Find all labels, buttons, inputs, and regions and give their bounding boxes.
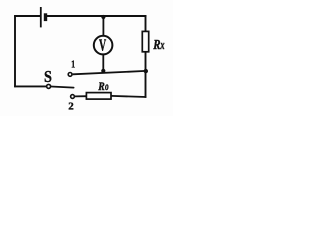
wire: left vertical: [14, 15, 16, 87]
svg-text:1: 1: [71, 60, 75, 71]
battery B short plate: [44, 13, 47, 21]
terminal 2: [71, 95, 75, 99]
svg-text:2: 2: [68, 101, 74, 113]
resistor R0 body: [86, 93, 111, 100]
wire: right vertical top corner to Rx: [145, 15, 147, 32]
switch S blade: [51, 87, 74, 88]
voltmeter top stem: [102, 16, 104, 36]
svg-text:x: x: [160, 39, 166, 52]
svg-text:R: R: [152, 37, 160, 53]
switch S pivot: [47, 84, 51, 88]
wire: switch feed: [14, 85, 46, 87]
wire: terminal 2 stub to R0: [75, 95, 88, 97]
wire: top from left corner to battery: [14, 15, 40, 17]
resistor Rx body: [142, 31, 148, 51]
node: junction dot right mid: [144, 69, 148, 73]
svg-text:S: S: [44, 68, 52, 86]
wire: right vertical Rx to bottom corner: [145, 52, 147, 98]
voltmeter bottom stem: [102, 55, 104, 72]
node: junction dot below voltmeter: [101, 69, 105, 73]
terminal 1: [68, 73, 72, 77]
voltmeter U1 circle: [94, 36, 113, 55]
wire: mid horizontal from terminal 1 to right vertical: [73, 71, 147, 74]
svg-text:V: V: [99, 36, 106, 54]
node: junction dot top: [101, 15, 105, 19]
battery B long plate: [40, 7, 42, 27]
svg-text:R: R: [97, 81, 104, 94]
svg-text:o: o: [105, 81, 109, 94]
wire: top from battery to right corner: [47, 15, 146, 17]
wire: R0 to bottom right corner: [111, 96, 146, 97]
